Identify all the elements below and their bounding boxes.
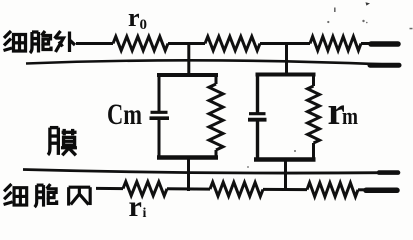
capacitor (right unit) bottom plate [248,118,267,122]
wire: right unit right edge upper [312,73,315,86]
wire: bottom rail between ri and node C [167,187,210,190]
node A: junction stem from top rail to left membrane unit [187,43,190,77]
resistor (left unit membrane resistance, vertical) [209,84,223,150]
wire: right unit left edge lower (capacitor to bottom) [256,121,259,161]
capacitor Cm (left unit) top plate [151,111,168,114]
wire: left unit bottom edge [157,155,218,160]
wire: top rail right end (heavy cut end) [361,42,374,45]
wire: right unit bottom edge [254,157,316,162]
text 胞 of 细胞外 (extracellular label) [30,31,51,53]
wire: left unit right edge upper [215,74,218,85]
wire: right unit right edge lower [312,143,315,161]
node B: junction stem from top rail to right membrane unit [285,43,288,77]
wire: bottom rail right end (heavy cut end) [358,188,368,191]
wire: right unit left edge upper (to capacitor) [256,73,259,113]
wire: bottom rail between second and third resistor [263,188,307,191]
resistor ri (bottom rail, first series element) [123,182,167,196]
wire: left unit left edge upper (to capacitor) [158,74,161,112]
svg-text:r: r [128,3,140,32]
wire: intracellular upper plain line [23,170,399,174]
wire: intracellular bottom rail left segment [96,187,123,190]
resistor (top rail, third series element) [310,37,361,51]
wire: left unit left edge lower (capacitor to bottom) [158,120,161,160]
svg-text:r: r [129,190,142,221]
wire: extracellular top rail left segment [76,42,113,45]
svg-text:0: 0 [140,17,148,33]
scan speck noise top right [247,2,412,168]
text 细 of 细胞内 (intracellular label) [4,184,27,205]
wire: intracellular upper plain line heavy right end [379,170,398,175]
node D: junction stem from right unit bottom to intracellular rail [284,158,287,191]
capacitor Cm (left unit) bottom plate [150,116,170,120]
wire: top rail between r0 and node A [168,42,205,45]
svg-text:Cm: Cm [107,98,142,131]
capacitor (right unit) top plate [249,112,266,115]
resistor (bottom rail, second series element) [210,182,263,196]
wire: top rail between second and third resistor [260,42,310,45]
wire: left unit right edge lower [215,150,218,159]
svg-text:i: i [143,206,147,221]
resistor rm (right unit membrane resistance, vertical) [308,86,320,143]
wire: left unit top edge [157,73,218,77]
svg-text:m: m [342,104,358,130]
node C: junction stem from left unit bottom to intracellular rail [187,156,190,191]
resistor (top rail, second series element) [205,37,260,51]
text 内 of 细胞内 (intracellular label) [69,187,91,205]
resistor (bottom rail, third series element) [307,183,358,197]
resistor r0 (top rail, first series element) [113,37,168,51]
text 膜 (membrane label) [48,128,77,156]
wire: second extracellular line [26,60,399,65]
wire: second extracellular line heavy right end [370,63,399,68]
text 细 of 细胞外 (extracellular label) [4,31,26,51]
text 胞 of 细胞内 (intracellular label) [35,184,57,207]
wire: right unit top edge [256,73,316,77]
text 外 of 细胞外 (extracellular label) [55,31,76,52]
